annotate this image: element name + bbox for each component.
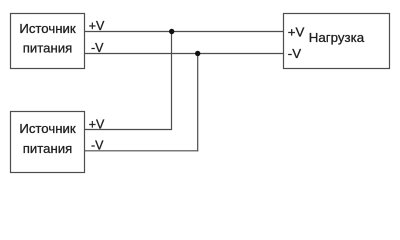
svg-text:Источник: Источник — [19, 121, 76, 136]
svg-text:+V: +V — [89, 117, 105, 131]
wire -V from source 2 vertical riser — [197, 54, 199, 152]
power source 2 box — [11, 112, 85, 173]
wire +V from source 1 to load — [85, 31, 284, 33]
svg-text:+V: +V — [89, 19, 105, 33]
svg-text:питания: питания — [23, 41, 73, 56]
power source 1 box — [11, 14, 85, 69]
junction dot on +V bus — [169, 29, 174, 34]
wire +V from source 2 vertical riser — [171, 32, 173, 131]
svg-text:питания: питания — [23, 141, 73, 156]
junction dot on -V bus — [195, 51, 200, 56]
svg-text:Нагрузка: Нагрузка — [309, 30, 365, 45]
svg-text:-V: -V — [288, 46, 301, 61]
svg-text:-V: -V — [91, 41, 104, 55]
wire -V from source 1 to load — [85, 53, 284, 55]
wire +V from source 2 horizontal — [85, 129, 173, 131]
wire -V from source 2 horizontal — [85, 150, 199, 152]
load box — [284, 14, 390, 69]
svg-text:Источник: Источник — [19, 21, 76, 36]
svg-text:+V: +V — [288, 24, 305, 39]
svg-text:-V: -V — [91, 138, 104, 152]
